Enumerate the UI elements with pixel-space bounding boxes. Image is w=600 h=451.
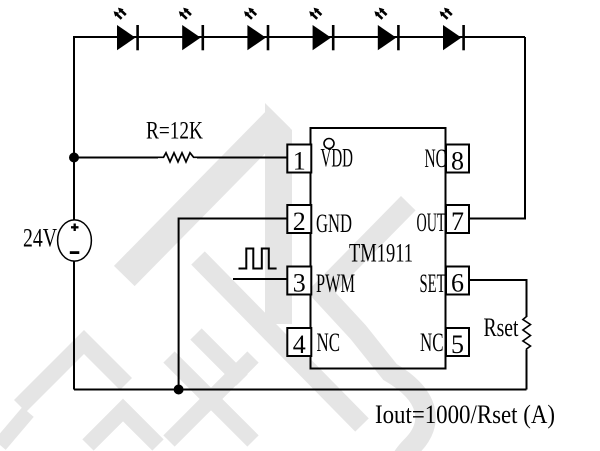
svg-text:Rset: Rset (484, 313, 520, 342)
svg-text:PWM: PWM (316, 269, 355, 298)
svg-text:OUT: OUT (417, 208, 446, 237)
svg-text:8: 8 (451, 147, 464, 176)
svg-text:2: 2 (293, 207, 306, 236)
svg-text:VDD: VDD (321, 144, 354, 173)
svg-text:SET: SET (420, 269, 446, 298)
svg-text:Iout=1000/Rset (A): Iout=1000/Rset (A) (375, 399, 555, 429)
svg-text:4: 4 (293, 330, 306, 359)
svg-text:7: 7 (451, 207, 464, 236)
svg-text:TM1911: TM1911 (349, 239, 413, 268)
svg-text:R=12K: R=12K (146, 116, 203, 145)
svg-text:5: 5 (451, 330, 464, 359)
svg-text:1: 1 (293, 147, 306, 176)
svg-text:NC: NC (425, 144, 447, 173)
svg-text:GND: GND (316, 209, 352, 238)
svg-text:24V: 24V (23, 224, 57, 253)
svg-text:NC: NC (420, 328, 444, 357)
svg-text:3: 3 (293, 269, 306, 298)
svg-text:NC: NC (317, 328, 341, 357)
svg-text:6: 6 (451, 269, 464, 298)
